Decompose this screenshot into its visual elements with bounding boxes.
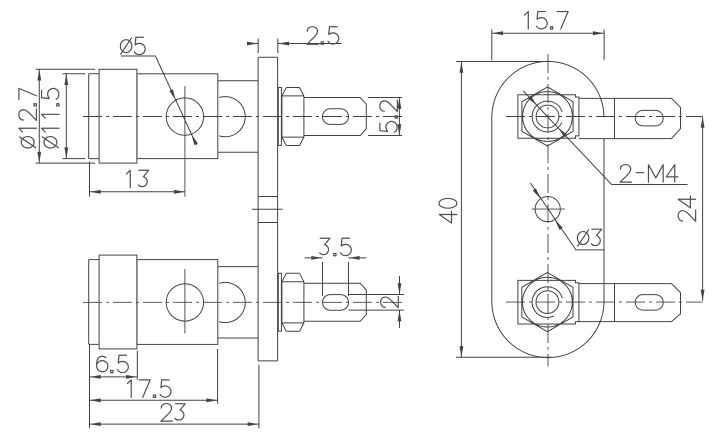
lower hex nut side view <box>282 273 304 331</box>
text 5.2 <box>380 100 398 132</box>
text 24 <box>678 196 696 221</box>
lower tab oval hole <box>635 295 663 311</box>
mounting panel <box>258 57 278 361</box>
dimension dia11.5 lines <box>63 74 86 159</box>
center hole dia 3 <box>535 197 560 222</box>
lower nut chamfer circle <box>523 277 573 327</box>
front view plate outline <box>492 61 604 357</box>
lower binding post cap <box>89 260 99 345</box>
upper binding post cap (side view) <box>89 74 99 159</box>
upper lug square plate <box>518 95 579 139</box>
upper hex nut side view <box>282 88 304 146</box>
dimension 5.2 lines <box>368 98 402 136</box>
lower tab bend line <box>614 284 616 322</box>
text dia 3 <box>577 229 601 246</box>
upper hex nut front view <box>522 87 573 146</box>
text dia 12.7 <box>19 88 37 148</box>
lower main body block <box>137 260 218 345</box>
lower cross hole dia 5 <box>166 284 203 321</box>
lower thread bore circle <box>536 291 559 314</box>
dimension 24 lines <box>702 116 704 301</box>
lower lug horizontal centerline <box>506 301 703 303</box>
dimension dia5 leader <box>121 56 197 145</box>
dimension 2-M4 leader <box>523 91 687 185</box>
dimension 6.5 lines <box>90 345 138 428</box>
text 3.5 <box>320 238 352 255</box>
upper solder tab blade <box>304 98 366 136</box>
upper thread arc M4 <box>532 101 562 132</box>
lower unit horizontal centerline <box>83 301 405 303</box>
upper tab oval hole <box>635 110 663 126</box>
dimension 3.5 lines <box>305 258 367 296</box>
dimension 13 lines <box>90 162 186 197</box>
text 2-M4 <box>620 165 678 183</box>
upper hole vertical centerline <box>184 86 186 197</box>
plate vertical centerline <box>547 54 549 367</box>
text 23 <box>161 404 185 422</box>
upper washer <box>278 88 281 146</box>
text dia 5 <box>120 37 145 54</box>
text 13 <box>126 170 148 187</box>
upper collar flange <box>99 69 137 163</box>
lower tab slot hole <box>323 295 349 311</box>
upper tab slot hole <box>323 109 349 125</box>
dimension 40 lines <box>456 62 551 358</box>
upper tab bend line <box>614 98 616 138</box>
upper lug horizontal centerline <box>506 116 703 118</box>
lower hole vertical centerline <box>184 269 186 334</box>
dimension 17.5 lines <box>90 349 218 404</box>
upper main body block <box>137 74 218 159</box>
upper nut chamfer circle <box>523 92 573 142</box>
dimension 23 lines <box>90 365 259 428</box>
upper unit horizontal centerline <box>83 116 405 118</box>
panel break mark long <box>252 208 283 210</box>
text 17.5 <box>127 380 171 397</box>
dimension dia3 leader <box>530 183 603 250</box>
text 6.5 <box>97 355 129 372</box>
lower washer <box>278 273 281 331</box>
lower dome contact arc <box>219 282 245 322</box>
text dia 11.5 <box>42 88 59 148</box>
lower thread arc M4 <box>532 287 562 318</box>
lower lug square plate <box>518 280 579 324</box>
dimension 15.7 lines <box>492 30 604 61</box>
lower step bushing <box>218 267 258 338</box>
panel break mark lower <box>258 222 278 224</box>
lower hex nut front view <box>522 273 573 332</box>
text 40 <box>439 198 457 223</box>
upper cross hole dia 5 <box>166 98 203 135</box>
dimension 2.5 lines <box>247 39 342 54</box>
text 2.5 <box>307 27 339 45</box>
upper tab front view <box>579 98 681 138</box>
upper thread bore circle <box>536 105 559 128</box>
text 15.7 <box>525 12 569 29</box>
center hole crosshair <box>532 208 566 210</box>
lower collar flange <box>99 255 137 349</box>
lower tab front view <box>579 284 681 322</box>
lower solder tab blade <box>304 283 366 321</box>
text 2 <box>381 296 399 307</box>
dimension 2 lines <box>349 276 405 328</box>
panel break mark upper <box>258 196 278 198</box>
dimension dia12.7 lines <box>36 69 96 163</box>
upper step bushing <box>218 81 258 152</box>
upper dome contact arc <box>219 97 245 137</box>
